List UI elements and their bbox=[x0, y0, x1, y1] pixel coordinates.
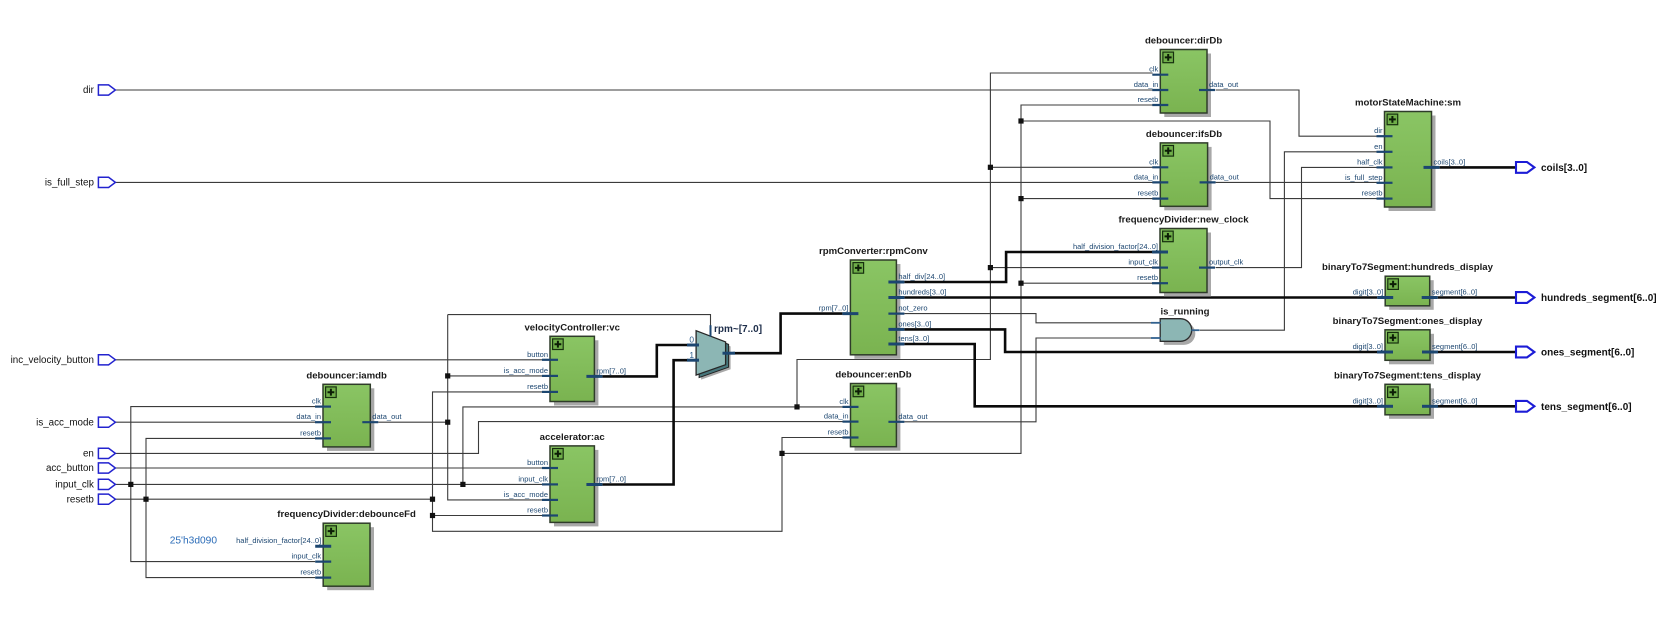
svg-text:clk: clk bbox=[839, 397, 848, 406]
wire output_clk to sm half_clk bbox=[1216, 167, 1377, 267]
wire input_clk riser to enDb clk bbox=[463, 407, 843, 485]
junction is_acc from iamdb bbox=[445, 420, 450, 425]
wire bus vc rpm to mux in0 bbox=[602, 345, 688, 376]
module frequencyDivider:new_clock bbox=[1073, 215, 1249, 297]
svg-text:segment[6..0]: segment[6..0] bbox=[1432, 288, 1477, 297]
svg-text:tens_segment[6..0]: tens_segment[6..0] bbox=[1541, 402, 1632, 413]
and-gate is_running bbox=[1151, 307, 1210, 345]
svg-text:dir: dir bbox=[83, 85, 95, 96]
svg-text:half_div[24..0]: half_div[24..0] bbox=[898, 272, 945, 281]
svg-text:resetb: resetb bbox=[300, 568, 321, 577]
svg-text:is_full_step: is_full_step bbox=[45, 178, 95, 189]
wire input_clk branch to iamdb clk bbox=[131, 407, 315, 485]
module rpmConverter:rpmConv bbox=[819, 246, 947, 359]
svg-text:inc_velocity_button: inc_velocity_button bbox=[11, 355, 94, 366]
wire input_clk branch to debounceFd input_clk bbox=[131, 484, 315, 561]
svg-text:segment[6..0]: segment[6..0] bbox=[1432, 396, 1477, 405]
junction resetb ifsDb tee bbox=[1018, 196, 1023, 201]
wire dirDb data_out to sm dir bbox=[1216, 90, 1377, 136]
svg-text:data_in: data_in bbox=[1134, 80, 1159, 89]
svg-text:hundreds[3..0]: hundreds[3..0] bbox=[898, 288, 946, 297]
svg-text:resetb: resetb bbox=[67, 494, 95, 505]
svg-text:dir: dir bbox=[1374, 126, 1383, 135]
input port en bbox=[83, 448, 115, 459]
wire resetb branch to debounceFd resetb bbox=[146, 499, 315, 577]
svg-text:digit[3..0]: digit[3..0] bbox=[1353, 396, 1383, 405]
module debouncer:enDb bbox=[824, 370, 929, 451]
wire iamdb data_out to is_acc net bbox=[378, 421, 447, 423]
input port dir bbox=[83, 85, 115, 96]
module frequencyDivider:debounceFd bbox=[236, 509, 416, 590]
svg-text:hundreds_segment[6..0]: hundreds_segment[6..0] bbox=[1541, 293, 1656, 304]
svg-text:half_division_factor[24..0]: half_division_factor[24..0] bbox=[236, 536, 321, 545]
svg-text:data_out: data_out bbox=[372, 412, 402, 421]
wire is_acc_mode to iamdb data_in bbox=[115, 421, 315, 423]
module debouncer:iamdb bbox=[296, 370, 402, 451]
junction resetb sm tee bbox=[1018, 118, 1023, 123]
wire bus half_div to new_clock bbox=[904, 252, 1152, 282]
wire enDb data_out to is_running in2 bbox=[904, 338, 1152, 422]
svg-text:1: 1 bbox=[689, 350, 694, 360]
svg-text:coils[3..0]: coils[3..0] bbox=[1541, 163, 1587, 174]
svg-text:output_clk: output_clk bbox=[1209, 258, 1243, 267]
junction is_acc to vc bbox=[445, 373, 450, 378]
wire resetb to sm resetb bbox=[1021, 121, 1377, 199]
svg-text:resetb: resetb bbox=[1137, 273, 1158, 282]
svg-text:debouncer:dirDb: debouncer:dirDb bbox=[1145, 36, 1222, 47]
junction resetb right tee bbox=[779, 451, 784, 456]
svg-text:segment[6..0]: segment[6..0] bbox=[1432, 342, 1477, 351]
junction resetb to ac bbox=[430, 513, 435, 518]
svg-text:debouncer:iamdb: debouncer:iamdb bbox=[306, 370, 387, 381]
svg-text:frequencyDivider:debounceFd: frequencyDivider:debounceFd bbox=[277, 509, 416, 520]
wire clk riser to dirDb clk bbox=[797, 73, 1153, 407]
svg-text:rpm[7..0]: rpm[7..0] bbox=[596, 366, 626, 375]
input port inc_velocity_button bbox=[11, 355, 116, 366]
svg-text:debouncer:ifsDb: debouncer:ifsDb bbox=[1146, 129, 1222, 140]
module binaryTo7Segment:hundreds_display bbox=[1322, 262, 1494, 310]
input port acc_button bbox=[46, 463, 115, 474]
wire is_acc branch to vc is_acc_mode bbox=[448, 375, 542, 377]
wire input_clk trunk bbox=[115, 483, 542, 485]
svg-text:en: en bbox=[83, 449, 94, 460]
wire ifsDb data_out to sm is_full_step bbox=[1216, 181, 1377, 183]
junction resetb/iamdb-debounceFd bbox=[143, 497, 148, 502]
junction clk ifsDb tee bbox=[988, 165, 993, 170]
module debouncer:ifsDb bbox=[1134, 129, 1240, 210]
junction clk new_clock tee bbox=[988, 265, 993, 270]
wire resetb branch to iamdb resetb bbox=[146, 438, 315, 499]
wire bus ac rpm to mux in1 bbox=[602, 360, 688, 484]
svg-text:rpm[7..0]: rpm[7..0] bbox=[596, 475, 626, 484]
junction input_clk/iamdb-debounceFd bbox=[128, 482, 133, 487]
svg-text:button: button bbox=[527, 350, 548, 359]
mux rpm~[7..0] bbox=[687, 324, 762, 380]
wire bus hundreds_segment to port bbox=[1438, 296, 1516, 299]
svg-text:rpmConverter:rpmConv: rpmConverter:rpmConv bbox=[819, 246, 928, 257]
svg-text:resetb: resetb bbox=[1137, 95, 1158, 104]
svg-text:25'h3d090: 25'h3d090 bbox=[170, 536, 218, 547]
svg-text:not_zero: not_zero bbox=[898, 304, 927, 313]
svg-text:input_clk: input_clk bbox=[55, 480, 94, 491]
svg-text:binaryTo7Segment:hundreds_disp: binaryTo7Segment:hundreds_display bbox=[1322, 262, 1494, 273]
wire resetb to new_clock resetb bbox=[1021, 282, 1153, 284]
svg-text:resetb: resetb bbox=[828, 428, 849, 437]
junction input_clk riser tee bbox=[460, 482, 465, 487]
svg-text:debouncer:enDb: debouncer:enDb bbox=[835, 370, 911, 381]
wire resetb branch to ac resetb bbox=[433, 515, 543, 517]
input port is_acc_mode bbox=[36, 417, 115, 428]
svg-text:velocityController:vc: velocityController:vc bbox=[524, 322, 620, 333]
svg-text:0: 0 bbox=[689, 334, 694, 344]
wire clk to ifsDb clk bbox=[990, 166, 1152, 168]
svg-text:accelerator:ac: accelerator:ac bbox=[540, 432, 606, 443]
output port tens_segment[6..0] bbox=[1516, 401, 1632, 413]
svg-text:data_out: data_out bbox=[898, 412, 928, 421]
wire clk to new_clock input_clk bbox=[990, 267, 1152, 269]
wire en to enDb data_in bbox=[115, 422, 843, 454]
wire resetb branch right riser bbox=[782, 105, 1153, 453]
wire resetb net vc-enDb bbox=[433, 392, 843, 531]
wire bus tens_segment to port bbox=[1438, 405, 1516, 408]
junction resetb trunk tee bbox=[430, 497, 435, 502]
svg-text:input_clk: input_clk bbox=[292, 552, 322, 561]
wire bus ones to ones_display digit bbox=[904, 329, 1377, 352]
svg-text:ones_segment[6..0]: ones_segment[6..0] bbox=[1541, 348, 1634, 359]
svg-text:ones[3..0]: ones[3..0] bbox=[898, 319, 931, 328]
svg-text:clk: clk bbox=[312, 397, 321, 406]
svg-text:digit[3..0]: digit[3..0] bbox=[1353, 288, 1383, 297]
wire bus tens to tens_display digit bbox=[904, 344, 1377, 406]
svg-text:data_out: data_out bbox=[1209, 80, 1239, 89]
svg-text:resetb: resetb bbox=[1137, 189, 1158, 198]
module accelerator:ac bbox=[504, 432, 626, 527]
svg-text:data_in: data_in bbox=[1134, 172, 1159, 181]
wire is_acc select to mux bbox=[448, 315, 711, 327]
svg-text:clk: clk bbox=[1149, 157, 1158, 166]
svg-text:input_clk: input_clk bbox=[518, 474, 548, 483]
module binaryTo7Segment:ones_display bbox=[1333, 316, 1483, 365]
module velocityController:vc bbox=[504, 322, 626, 405]
svg-text:acc_button: acc_button bbox=[46, 463, 94, 474]
wire is_full_step to ifsDb data_in bbox=[115, 181, 1153, 183]
svg-text:en: en bbox=[1374, 142, 1382, 151]
svg-text:resetb: resetb bbox=[300, 428, 321, 437]
wire resetb trunk bbox=[115, 498, 433, 500]
svg-text:motorStateMachine:sm: motorStateMachine:sm bbox=[1355, 98, 1461, 109]
svg-text:frequencyDivider:new_clock: frequencyDivider:new_clock bbox=[1118, 215, 1249, 226]
svg-text:rpm~[7..0]: rpm~[7..0] bbox=[714, 324, 762, 335]
svg-text:is_running: is_running bbox=[1160, 307, 1209, 318]
svg-text:input_clk: input_clk bbox=[1128, 258, 1158, 267]
svg-text:binaryTo7Segment:tens_display: binaryTo7Segment:tens_display bbox=[1334, 370, 1482, 381]
junction resetb new_clock tee bbox=[1018, 281, 1023, 286]
wire bus hundreds to hundreds_display digit bbox=[904, 296, 1377, 299]
wire bus ones_segment to port bbox=[1438, 351, 1516, 354]
svg-text:data_in: data_in bbox=[296, 412, 321, 421]
output port coils[3..0] bbox=[1516, 162, 1587, 174]
svg-text:rpm[7..0]: rpm[7..0] bbox=[819, 304, 849, 313]
wire acc_button to ac button bbox=[115, 467, 542, 469]
svg-text:resetb: resetb bbox=[527, 506, 548, 515]
svg-text:half_clk: half_clk bbox=[1357, 157, 1383, 166]
svg-text:data_in: data_in bbox=[824, 412, 849, 421]
module debouncer:dirDb bbox=[1134, 36, 1239, 118]
wire is_running out to sm en bbox=[1200, 152, 1377, 330]
svg-text:data_out: data_out bbox=[1210, 172, 1240, 181]
svg-text:tens[3..0]: tens[3..0] bbox=[898, 334, 929, 343]
svg-text:is_acc_mode: is_acc_mode bbox=[504, 490, 548, 499]
output port ones_segment[6..0] bbox=[1516, 347, 1634, 359]
svg-text:resetb: resetb bbox=[527, 382, 548, 391]
input port is_full_step bbox=[45, 177, 116, 188]
svg-text:digit[3..0]: digit[3..0] bbox=[1353, 342, 1383, 351]
svg-text:clk: clk bbox=[1149, 65, 1158, 74]
wire is_acc net riser to ac is_acc_mode bbox=[448, 315, 542, 500]
input port input_clk bbox=[55, 479, 115, 490]
svg-text:coils[3..0]: coils[3..0] bbox=[1434, 157, 1466, 166]
wire bus mux out to rpmConv rpm bbox=[733, 314, 842, 354]
svg-text:button: button bbox=[527, 458, 548, 467]
wire inc_velocity_button to vc button bbox=[115, 359, 542, 361]
module binaryTo7Segment:tens_display bbox=[1334, 370, 1482, 419]
svg-text:half_division_factor[24..0]: half_division_factor[24..0] bbox=[1073, 242, 1158, 251]
input port resetb bbox=[67, 494, 116, 505]
module motorStateMachine:sm bbox=[1345, 98, 1465, 212]
wire dir to dirDb data_in bbox=[115, 89, 1153, 91]
wire resetb to ifsDb resetb bbox=[1021, 198, 1153, 200]
svg-text:resetb: resetb bbox=[1362, 189, 1383, 198]
junction clk enDb tee bbox=[794, 404, 799, 409]
svg-text:binaryTo7Segment:ones_display: binaryTo7Segment:ones_display bbox=[1333, 316, 1483, 327]
output port hundreds_segment[6..0] bbox=[1516, 292, 1656, 304]
svg-text:is_acc_mode: is_acc_mode bbox=[504, 366, 548, 375]
wire not_zero to is_running in1 bbox=[904, 314, 1152, 323]
wire bus coils to output port bbox=[1440, 166, 1516, 169]
svg-text:is_full_step: is_full_step bbox=[1345, 173, 1383, 182]
svg-text:is_acc_mode: is_acc_mode bbox=[36, 417, 94, 428]
